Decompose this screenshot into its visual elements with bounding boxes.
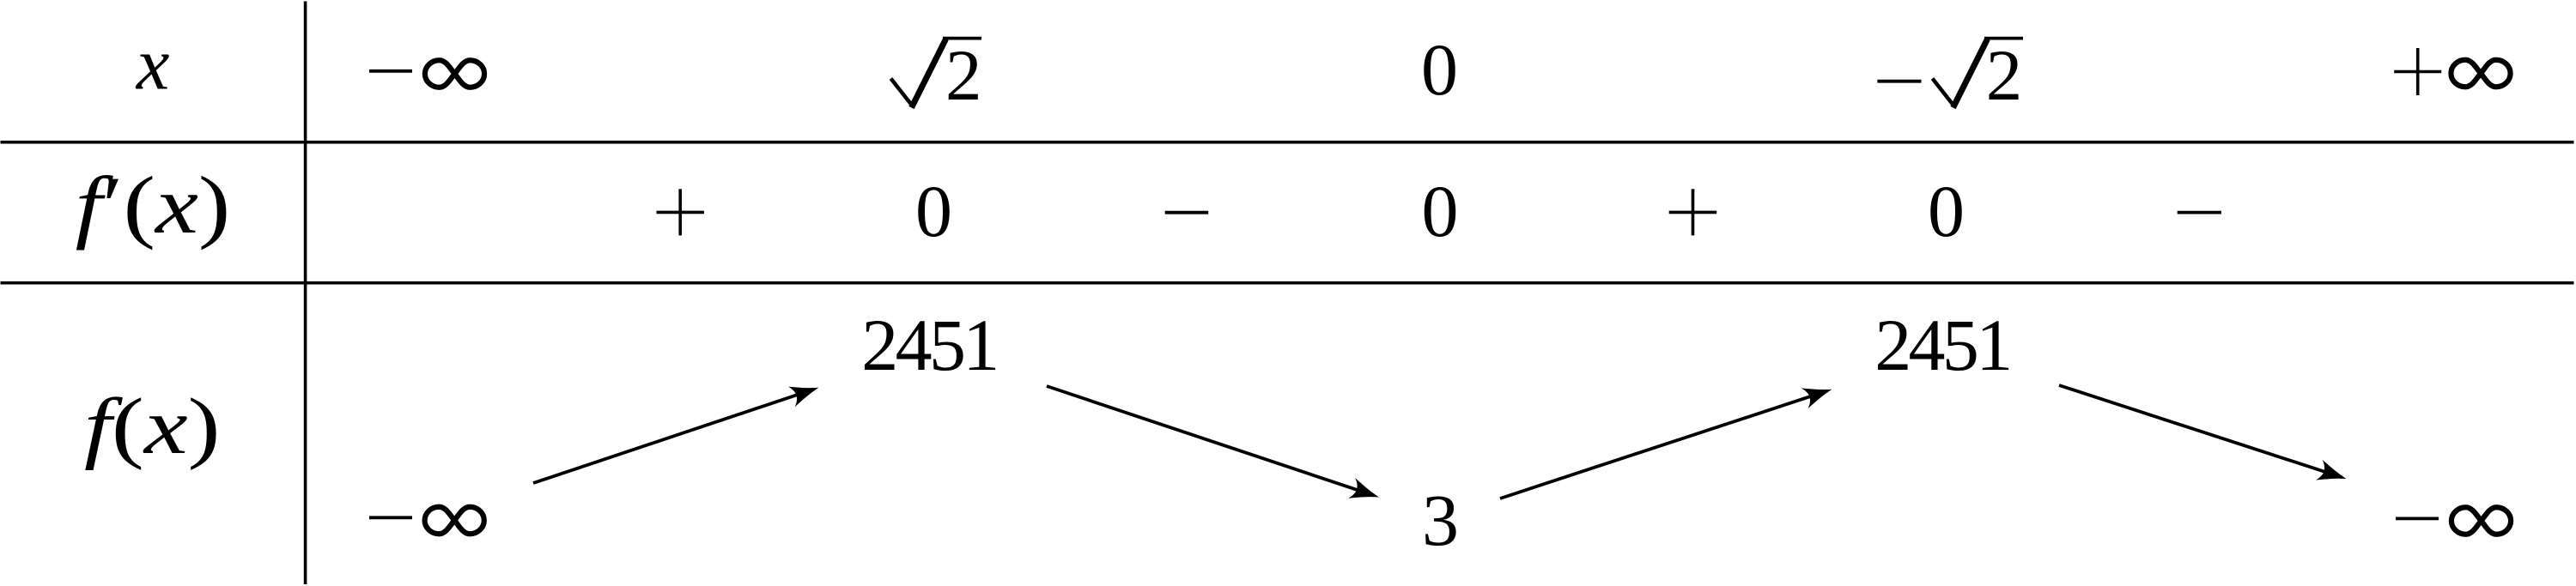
row x: radical sign of -sqrt(2)	[1933, 79, 1955, 107]
row x: minus sign of -sqrt(2)	[1877, 80, 1921, 83]
svg-text:0: 0	[1928, 170, 1965, 252]
row f'(x): sign - (fourth interval)	[2178, 211, 2221, 214]
svg-text:0: 0	[1422, 170, 1459, 252]
row x: plus sign of +infinity (right)	[2394, 70, 2441, 74]
arrow rising from -infinity to 2451 (first)	[533, 390, 814, 483]
vertical separator line between header column and value columns	[304, 2, 307, 585]
svg-text:3: 3	[1422, 479, 1459, 561]
row x: minus sign of -infinity (left)	[369, 69, 412, 73]
row f(x): minus sign of -infinity (bottom right)	[2396, 517, 2439, 521]
arrow rising from 3 to 2451 (second)	[1500, 391, 1827, 498]
svg-text:f′(x): f′(x)	[76, 160, 231, 251]
row f(x): infinity glyph of -infinity (bottom left)	[425, 507, 484, 535]
row f(x): minus sign of -infinity (bottom left)	[369, 516, 412, 519]
svg-text:x: x	[135, 22, 170, 106]
row header: f'(x)	[76, 160, 231, 251]
svg-text:f(x): f(x)	[84, 382, 221, 471]
svg-text:0: 0	[1421, 28, 1458, 111]
svg-text:0: 0	[915, 170, 952, 252]
svg-text:2451: 2451	[861, 304, 999, 386]
row f'(x): sign - (second interval)	[1165, 211, 1209, 214]
row f(x): infinity glyph of -infinity (bottom right)	[2451, 507, 2511, 535]
arrow falling from 2451 to 3	[1047, 386, 1375, 496]
horizontal rule between row f'(x) and row f(x)	[1, 281, 2574, 285]
arrow falling from 2451 to -infinity (right)	[2059, 385, 2342, 477]
horizontal rule between row x and row f'(x)	[1, 141, 2574, 144]
row x: infinity glyph of +infinity (right)	[2451, 60, 2510, 88]
row f'(x): sign + (third interval)	[1669, 211, 1717, 214]
row f'(x): sign + (first interval)	[657, 211, 704, 214]
svg-text:2451: 2451	[1874, 304, 2013, 386]
svg-text:2: 2	[945, 35, 982, 116]
row x: radical sign of sqrt(2)	[891, 79, 914, 107]
svg-text:2: 2	[1986, 35, 2023, 116]
row header: f(x)	[84, 382, 221, 471]
row x: infinity glyph of -infinity (left)	[425, 60, 484, 88]
